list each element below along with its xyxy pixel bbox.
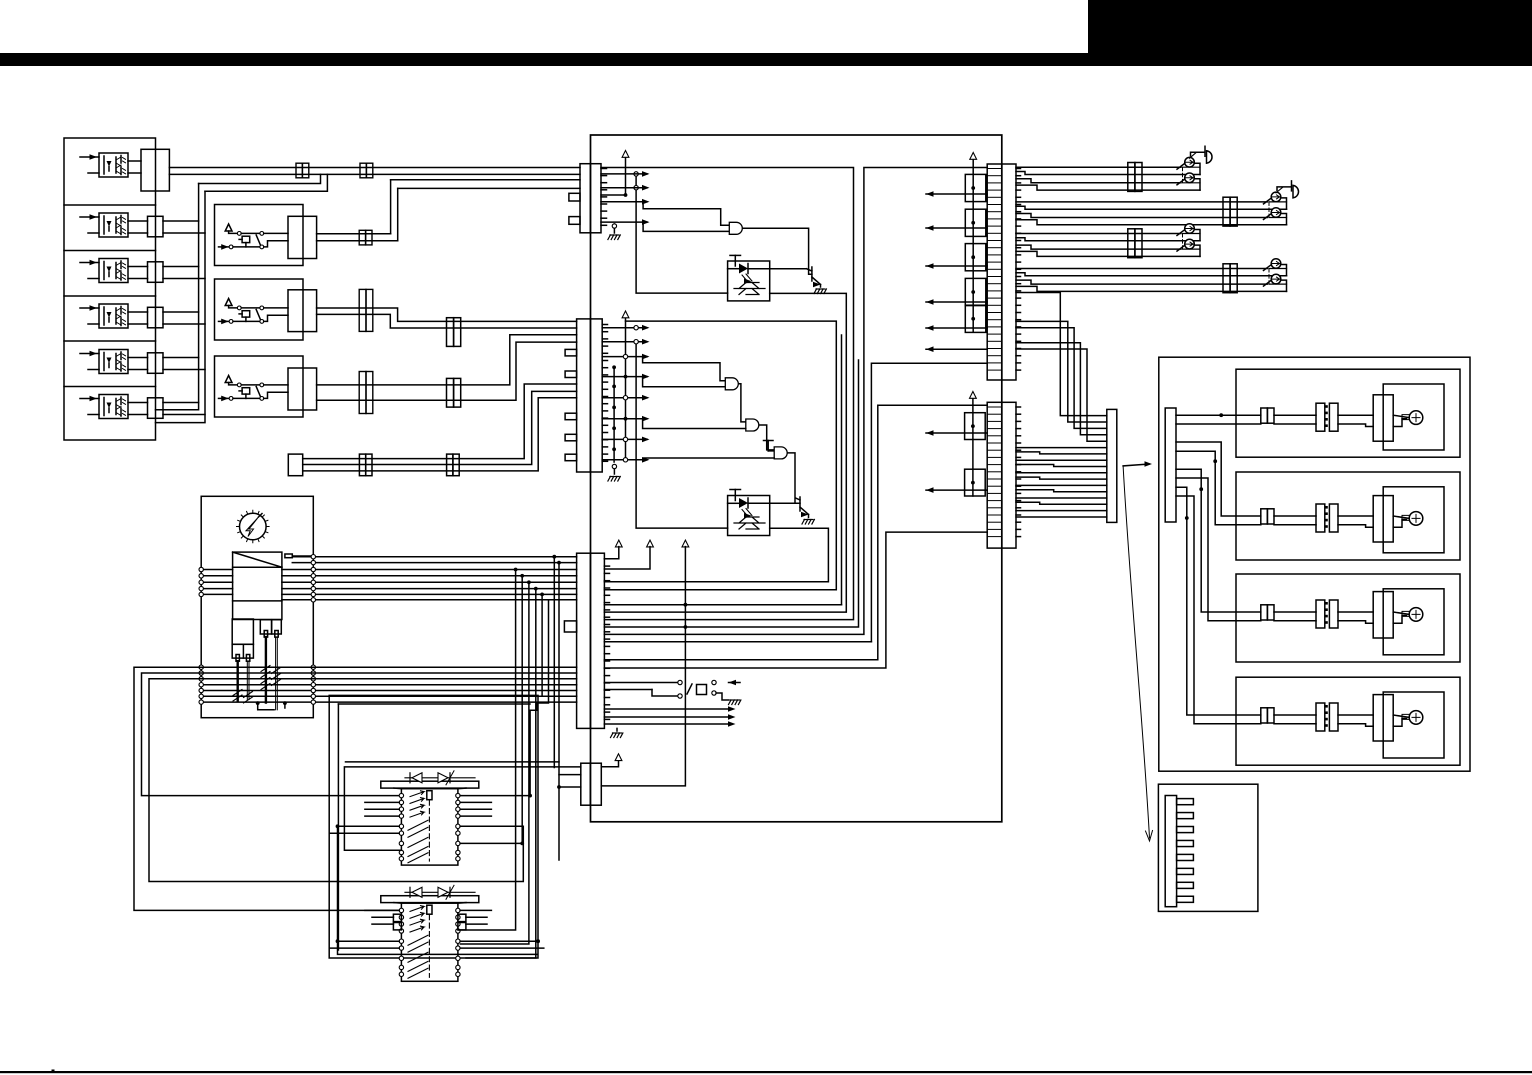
switch 2 + load xyxy=(1270,217,1287,219)
cable end connector xyxy=(288,454,302,476)
input wire PC6 xyxy=(80,398,99,400)
inline connector bundle b xyxy=(447,454,453,476)
footer rule xyxy=(0,1071,1532,1073)
header title block (black) xyxy=(1088,0,1532,54)
CN-A key tab 1 xyxy=(569,193,580,201)
input wire PC3 xyxy=(80,262,99,264)
leg bottom loop xyxy=(258,703,274,710)
AND gate U4 xyxy=(774,447,787,459)
CN-A out row1 long xyxy=(601,168,854,620)
rung cell2 top xyxy=(163,220,199,222)
driver 3 xyxy=(1373,592,1393,638)
main control PCB box xyxy=(591,135,1002,822)
speaker sub-box 4 xyxy=(1236,677,1460,765)
wire row y174.4 xyxy=(169,173,580,175)
relay K3 symbol xyxy=(225,376,232,383)
relay box K1 xyxy=(215,205,304,266)
mechanical link xyxy=(1268,269,1270,285)
CN-A row AND1 in2 xyxy=(643,222,729,231)
relay connector CN21 xyxy=(288,216,317,258)
buzzer xyxy=(1276,187,1283,193)
relay bank outer box xyxy=(329,695,538,958)
connector CN-D xyxy=(581,763,602,805)
speaker inner box 4 xyxy=(1383,692,1444,758)
input wire PC5 xyxy=(80,353,99,355)
relay box K2 xyxy=(215,279,304,340)
lower rows xyxy=(199,665,203,669)
riser row 627 xyxy=(604,360,858,627)
inline connector xyxy=(1128,163,1135,192)
speaker assembly outer box xyxy=(1159,357,1470,771)
bank 2 diodes xyxy=(405,891,475,893)
cell divider 5 xyxy=(64,386,156,388)
relay connector CN22 xyxy=(288,290,317,332)
speaker wires 3 xyxy=(1274,611,1316,613)
speaker inner box 1 xyxy=(1383,384,1444,450)
connector CN-A xyxy=(580,164,601,233)
AND gate U2 input loop xyxy=(643,357,726,381)
connector CN11 (cell1, large) xyxy=(141,149,169,191)
inline connector pair 2 xyxy=(360,163,373,178)
rung cell5 bottom xyxy=(163,369,205,371)
connector teeth xyxy=(1177,799,1194,805)
inline connector 3 xyxy=(1261,605,1268,620)
connector CN15 xyxy=(148,353,164,374)
speaker inner box 3 xyxy=(1383,589,1444,655)
wire row y167.5 CN11 to CN-A xyxy=(169,167,580,169)
T1 triac xyxy=(734,283,765,295)
CN-A key tab 2 xyxy=(569,217,580,225)
terminal wires xyxy=(1016,233,1181,235)
Q2 ground xyxy=(808,515,810,518)
CN-R1 internal pins xyxy=(987,168,1002,170)
rung cell6 bottom xyxy=(163,414,205,416)
speaker wires 1 xyxy=(1274,414,1316,416)
inline connector xyxy=(1223,197,1230,226)
speaker 2 xyxy=(1409,512,1423,526)
CN-B inner rail xyxy=(613,367,615,462)
bank1 row7 right xyxy=(460,842,522,844)
connector CN-B xyxy=(577,319,603,472)
opto out wires cell5 xyxy=(128,357,148,359)
switch 1 + load xyxy=(1183,166,1200,168)
CN-A rail 2 xyxy=(636,174,728,293)
connector CN12 xyxy=(148,216,164,237)
U3 out xyxy=(760,425,774,450)
relay1 risers xyxy=(390,180,392,234)
PSU left rows xyxy=(201,569,232,571)
switch 2 + load xyxy=(1183,248,1200,250)
wire harness bus xyxy=(1107,409,1117,522)
CN-R1 left arrows xyxy=(926,193,987,195)
CN-R2 rail with up arrow xyxy=(972,399,974,496)
CN-C up arrows xyxy=(615,540,622,547)
accessory connector box xyxy=(1158,784,1258,911)
bank 1 coil xyxy=(427,791,432,800)
transformer T-PSU xyxy=(233,552,282,619)
CN-A out arrow rows xyxy=(601,173,647,175)
AND gate U3 xyxy=(746,419,759,431)
driver 2 xyxy=(1373,496,1393,542)
accessory connector bar xyxy=(1165,796,1176,907)
CN-R2 internal pins xyxy=(987,406,1002,408)
rung cell2 bottom xyxy=(163,232,205,234)
photo-triac coupler T1 xyxy=(728,261,770,301)
opto-isolator PC6 xyxy=(99,395,128,419)
bus vertical A xyxy=(156,184,199,410)
connector CN-R2 xyxy=(987,402,1016,548)
pin header pair 1 xyxy=(1316,403,1325,431)
rung cell6 top xyxy=(163,402,199,404)
U3 in2 xyxy=(643,419,746,429)
connector CN16 xyxy=(148,398,164,419)
opto-isolator PC1 xyxy=(99,153,128,177)
speaker 3 xyxy=(1409,608,1423,622)
CN-R1 rail with up arrow xyxy=(972,160,974,332)
cell divider 3 xyxy=(64,295,156,297)
transistor Q2 xyxy=(799,497,801,511)
bank1 row5 loop xyxy=(338,826,524,881)
CN-B right pin stubs xyxy=(602,324,607,326)
T2 LED xyxy=(728,502,739,504)
CN-R2 jumper loops xyxy=(965,413,986,440)
CN-R2 right pin stubs xyxy=(1016,406,1021,408)
driver 1 xyxy=(1373,395,1393,441)
inline connector relay1 xyxy=(359,230,372,245)
PSU right rows to CN-C xyxy=(292,556,576,558)
CN-R1 right pin stubs xyxy=(1016,168,1021,170)
Q1 ground xyxy=(820,285,822,288)
CN-B key tabs xyxy=(565,349,577,356)
wire row y179.8 to CN-A xyxy=(391,179,580,181)
connector CN-R1 xyxy=(987,164,1016,380)
fuse xyxy=(285,554,292,558)
PSU legs xyxy=(232,619,253,644)
T2 triac xyxy=(734,517,765,529)
riser x530 bank rows xyxy=(530,710,537,795)
input wire PC4 xyxy=(80,307,99,309)
terminal wires xyxy=(1016,201,1268,203)
speaker sub-box 3 xyxy=(1236,574,1460,662)
CN-B rail2 xyxy=(636,342,728,528)
AND1 output to Q1 xyxy=(743,228,812,274)
U4 out to Q2 xyxy=(788,453,800,503)
switch 2 + load xyxy=(1183,182,1200,184)
CN-B ground xyxy=(613,465,615,474)
CN-A right pin stubs xyxy=(601,168,607,170)
relay bank 1 bar xyxy=(381,781,479,788)
mains hazard icon xyxy=(240,513,267,540)
speaker harness connector xyxy=(1165,408,1176,522)
CN-A rail 1 with up arrow xyxy=(625,158,627,195)
pin header pair 3 xyxy=(1316,600,1325,628)
mechanical link xyxy=(1182,234,1184,250)
switch 1 + load xyxy=(1270,201,1287,203)
connector CN13 xyxy=(148,262,164,283)
riser to R2 row b xyxy=(604,532,987,668)
bank2 frame xyxy=(338,882,538,955)
feed row to CN-R1 xyxy=(604,168,987,635)
speaker wires 2 xyxy=(1274,515,1316,517)
bank 2 switch matrix xyxy=(401,903,458,981)
interlock switch circuit xyxy=(604,682,678,684)
bus extra rows xyxy=(1016,516,1107,518)
CN-C arrow rail 2 xyxy=(604,547,650,569)
buzzer xyxy=(1190,153,1197,159)
inline connector relay3 b xyxy=(447,378,454,407)
bank2 row stubs xyxy=(365,909,399,911)
opto-isolator PC4 xyxy=(99,304,128,328)
opto out wires cell6 xyxy=(128,402,148,404)
bank 1 switch matrix xyxy=(401,789,458,865)
cell divider 4 xyxy=(64,340,156,342)
rung cell3 bottom xyxy=(163,278,205,280)
T1 out right riser xyxy=(604,293,846,612)
bank2 row5 xyxy=(338,940,400,942)
connector CN14 xyxy=(148,307,164,328)
left feed verticals xyxy=(134,667,577,910)
CN-R2 left arrows xyxy=(926,432,987,434)
speaker 1 xyxy=(1409,411,1423,425)
leg wires down xyxy=(236,661,238,701)
bundle wires xyxy=(303,384,577,459)
inline connector xyxy=(1128,229,1135,258)
AND gate U2 xyxy=(725,378,738,390)
rung cell4 bottom xyxy=(163,323,205,325)
transistor Q1 xyxy=(811,267,813,281)
CN-B top long row xyxy=(604,321,836,590)
pin header pair 2 xyxy=(1316,504,1325,532)
leg terminals xyxy=(236,655,239,662)
input wire PC1 xyxy=(80,156,99,158)
header rule bar xyxy=(0,53,1532,66)
riser to R2 row a xyxy=(604,405,987,659)
bank1 frame to CN-D xyxy=(344,767,580,850)
reference arrow to speaker unit xyxy=(1123,464,1149,466)
photo-triac coupler T2 xyxy=(728,496,770,536)
terminal wires xyxy=(1016,166,1181,168)
jog to bus B xyxy=(205,174,327,191)
U2 out xyxy=(739,384,746,422)
relay connector CN23 xyxy=(288,368,317,410)
T1 power tee xyxy=(734,255,736,266)
sensor block outer box xyxy=(64,138,156,440)
jog to bus A xyxy=(199,174,321,183)
speaker 4 xyxy=(1409,711,1423,725)
rung cell4 top xyxy=(163,311,199,313)
wire row y188.4 to CN-A xyxy=(398,187,580,189)
bank1 row stubs right xyxy=(460,801,491,803)
speaker wires 4 xyxy=(1274,714,1316,716)
inline connector relay3 a xyxy=(359,372,373,414)
cell divider 2 xyxy=(64,250,156,252)
pin header pair 4 xyxy=(1316,703,1325,731)
inline connector relay2 b xyxy=(447,318,454,347)
opto out wires cell1 xyxy=(128,160,141,162)
opto-isolator PC3 xyxy=(99,259,128,283)
bank 2 link line xyxy=(428,915,430,978)
bank 1 link line xyxy=(428,800,430,861)
inline connector bundle a xyxy=(359,454,365,476)
rung cell3 top xyxy=(163,266,199,268)
CN-A ground xyxy=(613,224,615,233)
inline connector relay2 a xyxy=(359,289,373,331)
relay2 out wires xyxy=(317,308,577,321)
bus vertical B xyxy=(156,191,206,422)
speaker sub-box 1 xyxy=(1236,369,1460,457)
speaker inner box 2 xyxy=(1383,487,1444,553)
relay K1 symbol xyxy=(225,224,232,231)
bank2 row6 xyxy=(330,947,400,949)
U4 in2 xyxy=(644,458,774,460)
footer tick xyxy=(52,1070,55,1073)
CN-D up arrow xyxy=(601,760,618,767)
crossing hatches xyxy=(261,666,281,690)
vertical to CN-D pin1 xyxy=(553,557,555,768)
inline connector xyxy=(1223,264,1230,293)
opto out wires cell3 xyxy=(128,266,148,268)
mechanical link xyxy=(1182,167,1184,183)
relay3 out wires xyxy=(317,335,577,385)
input wire PC2 xyxy=(80,216,99,218)
relay bank 2 bar xyxy=(381,896,479,903)
mechanical link xyxy=(1268,202,1270,218)
inline connector pair 1 xyxy=(296,163,309,178)
AND gate U1 xyxy=(729,222,742,234)
vertical to CN-D pin2 xyxy=(558,563,560,860)
bank2 side bobbins xyxy=(393,914,401,921)
inline connector 4 xyxy=(1261,708,1268,723)
CN-R1 jumper loops xyxy=(965,174,986,201)
relay1 out wires xyxy=(317,233,391,235)
CN-A out row dot xyxy=(601,194,626,196)
CN-A row to AND1 xyxy=(643,202,729,226)
bank 1 diodes xyxy=(405,777,475,779)
terminal wires xyxy=(1016,268,1268,270)
CN-C arrow rail 1 xyxy=(604,547,618,559)
CN-R1 lower pins to cable bus xyxy=(1016,293,1107,416)
cell divider 1 xyxy=(64,204,156,206)
rung cell5 top xyxy=(163,357,199,359)
speaker sub-box 2 xyxy=(1236,472,1460,560)
switch 1 + load xyxy=(1183,233,1200,235)
CN-C arrow rail 3 xyxy=(601,547,685,786)
driver 4 xyxy=(1373,695,1393,741)
bank1 row5 left xyxy=(338,825,400,827)
CN-C lower arrow rows xyxy=(604,708,731,710)
CN-C right pin stubs xyxy=(604,558,609,560)
bank1 row6 long xyxy=(330,832,400,834)
switch 1 + load xyxy=(1270,268,1287,270)
U4 power tee xyxy=(767,441,769,451)
CN-R2 right rows to bus xyxy=(1016,447,1107,449)
opto out wires cell4 xyxy=(128,311,148,313)
opto-isolator PC2 xyxy=(99,213,128,237)
bank 2 coil xyxy=(427,905,432,914)
power supply outer box xyxy=(201,496,313,717)
bank1 row stubs left xyxy=(365,801,399,803)
CN-C right fanout rows xyxy=(604,604,841,606)
T2 out right riser xyxy=(604,528,828,582)
CN-B rail1 with up arrow xyxy=(625,318,627,461)
bank1 row1 long xyxy=(460,795,530,797)
bank1 frame upper xyxy=(346,761,560,763)
T2 power tee xyxy=(734,490,736,501)
relay box K3 xyxy=(215,356,304,417)
inline connector 1 xyxy=(1261,408,1268,423)
opto-isolator PC5 xyxy=(99,350,128,374)
switch 2 + load xyxy=(1270,283,1287,285)
opto out wires cell2 xyxy=(128,220,148,222)
relay K2 symbol xyxy=(225,299,232,306)
inline connector 2 xyxy=(1261,509,1268,524)
connector CN-C xyxy=(577,553,605,728)
CN-B out arrow rows xyxy=(602,327,647,329)
CN-C key tab xyxy=(564,621,576,632)
harness verticals to banks xyxy=(458,570,515,931)
riser to R1 bottom row xyxy=(871,363,987,642)
CN-C ground xyxy=(611,733,623,738)
harness wires to sub-boxes xyxy=(1176,414,1261,416)
T1 LED xyxy=(728,268,739,270)
